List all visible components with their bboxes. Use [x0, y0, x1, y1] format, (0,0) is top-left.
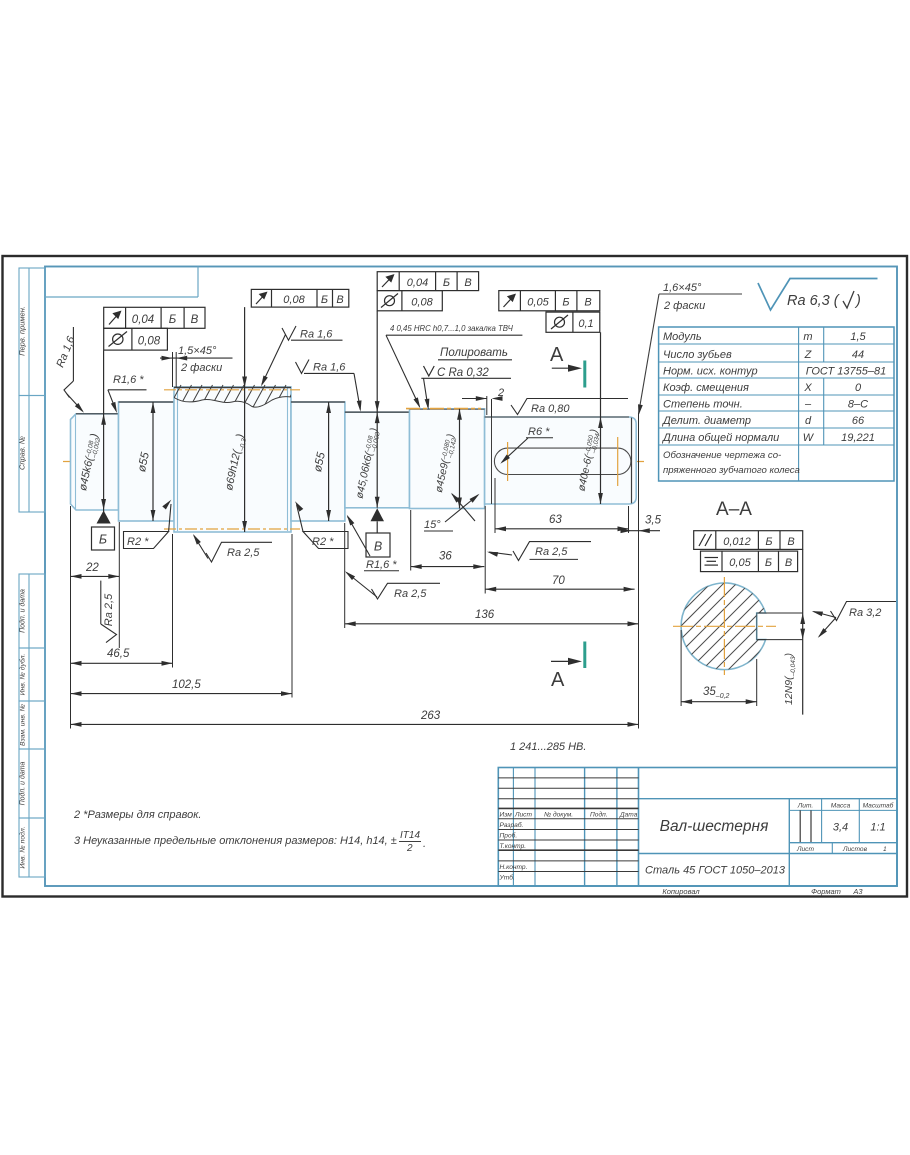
datum symbol V (right) [366, 508, 390, 557]
label R2* (left) [124, 498, 174, 548]
svg-text:W: W [803, 432, 815, 444]
svg-text:Ra 2,5: Ra 2,5 [227, 547, 260, 559]
svg-text:1,6×45°: 1,6×45° [663, 282, 702, 294]
top-left applicability box [45, 267, 198, 298]
svg-text:Ra 0,80: Ra 0,80 [531, 403, 570, 415]
svg-text:Утб.: Утб. [499, 873, 515, 881]
TITLE BLOCK [498, 768, 897, 887]
dim o45.06k6 with leader from tolerance frame C [354, 311, 383, 508]
svg-text:0,012: 0,012 [723, 536, 751, 548]
svg-text:.: . [423, 838, 426, 850]
svg-text:Б: Б [443, 277, 450, 289]
svg-text:Т.контр.: Т.контр. [500, 843, 527, 850]
svg-text:0,08: 0,08 [411, 297, 433, 309]
svg-text:102,5: 102,5 [172, 679, 201, 691]
dim 263 [71, 710, 639, 727]
hardening note 0,45 HRC zakalka TVCh [386, 324, 522, 409]
svg-text:1,5: 1,5 [850, 331, 866, 343]
svg-text:Проб.: Проб. [500, 831, 518, 839]
svg-text:Норм. исх. контур: Норм. исх. контур [663, 366, 758, 378]
svg-text:R2 *: R2 * [127, 536, 149, 548]
svg-text:Б: Б [765, 536, 772, 548]
svg-text:A: A [551, 669, 565, 691]
svg-text:70: 70 [552, 575, 565, 587]
left table rows (black) [498, 777, 638, 779]
GEAR PARAMETER TABLE [659, 327, 894, 481]
svg-text:0,08: 0,08 [138, 336, 161, 348]
svg-text:0,08: 0,08 [283, 294, 305, 306]
tolerance frame E row1 (parallelism 0,012 B V) [694, 531, 803, 550]
svg-text:46,5: 46,5 [107, 648, 130, 660]
tolerance frame E row2 (symmetry 0,05 B V) [701, 551, 798, 572]
left table verticals [512, 768, 514, 887]
roughness Ra 2,5 rotated (on 22 ext line) [101, 581, 117, 643]
svg-text:): ) [854, 293, 861, 309]
svg-text:0,1: 0,1 [578, 318, 593, 330]
left margin box: Inv. No podl. [19, 818, 46, 877]
svg-text:m: m [803, 331, 812, 343]
svg-text:1,5×45°: 1,5×45° [178, 345, 217, 357]
gear segment (o69h12) [174, 387, 291, 532]
roughness Ra 2,5 (left-bottom, shoulder 4/5) [343, 569, 440, 600]
section circle with keyway cut [681, 583, 766, 670]
chamfer note 1,6x45 2 faski (right) [636, 282, 742, 416]
svg-text:Б: Б [99, 533, 107, 547]
NOTES bottom left [73, 809, 426, 854]
svg-text:Ra 6,3 (: Ra 6,3 ( [787, 293, 841, 309]
svg-text:Масса: Масса [831, 803, 851, 810]
shaft segment 6 (o45e9) [410, 409, 485, 509]
dim 102,5 [71, 679, 293, 696]
svg-text:Масштаб: Масштаб [863, 802, 894, 810]
dim 12N9 [783, 613, 805, 705]
svg-text:Разраб.: Разраб. [500, 821, 524, 829]
svg-text:Подп. и дата: Подп. и дата [19, 761, 27, 805]
left margin box: Podp. i data (lower) [19, 749, 46, 818]
tolerance frame D row1 (runout 0,05 B V) [499, 291, 600, 311]
dim 46,5 [71, 648, 173, 666]
shaft segment 2 (o55 left) [119, 402, 175, 521]
bottom strip labels [662, 887, 863, 896]
lit massa masshtab [821, 799, 823, 843]
shaft segment 5 (o45.06k6) [345, 412, 410, 508]
svg-text:Перв. примен.: Перв. примен. [18, 306, 27, 356]
svg-text:Б: Б [321, 294, 328, 306]
svg-text:Длина общей нормали: Длина общей нормали [661, 432, 779, 444]
datum symbol B (left) [92, 511, 115, 551]
svg-text:15°: 15° [424, 519, 441, 531]
svg-text:2 фаски: 2 фаски [663, 300, 705, 312]
dim 70 [485, 575, 634, 592]
fillet shoulders (dark top edges of steps) [485, 416, 629, 418]
svg-text:В: В [584, 297, 591, 309]
svg-text:Сталь 45 ГОСТ 1050–2013: Сталь 45 ГОСТ 1050–2013 [645, 865, 786, 877]
svg-text:Обозначение чертежа со-: Обозначение чертежа со- [663, 450, 781, 461]
dim o55 left [136, 402, 155, 521]
svg-text:Вал-шестерня: Вал-шестерня [660, 818, 769, 835]
label R6* with leader [499, 426, 553, 466]
svg-text:A–A: A–A [716, 499, 752, 520]
svg-text:В: В [787, 536, 794, 548]
svg-text:36: 36 [439, 551, 452, 563]
svg-text:В: В [336, 294, 343, 306]
15 deg taper note with crossing leaders [424, 491, 481, 531]
svg-text:Ra 1,6: Ra 1,6 [300, 329, 333, 341]
svg-text:0,04: 0,04 [132, 314, 154, 326]
svg-text:66: 66 [852, 415, 865, 427]
svg-text:12N9(–0,043): 12N9(–0,043) [783, 653, 797, 705]
svg-text:0: 0 [855, 382, 862, 394]
roughness Ra 2,5 (gear bottom) [191, 533, 272, 562]
shaft segment 4 (o55 right) [291, 402, 345, 521]
svg-text:3,5: 3,5 [645, 515, 662, 527]
svg-text:Число зубьев: Число зубьев [663, 349, 732, 361]
svg-text:3 Неуказанные предельные откло: 3 Неуказанные предельные отклонения разм… [74, 835, 397, 847]
keyway centerline ticks (orange) [508, 437, 618, 486]
svg-text:Дата: Дата [619, 811, 638, 818]
svg-text:136: 136 [475, 609, 495, 621]
svg-text:В: В [464, 277, 471, 289]
svg-text:8–C: 8–C [848, 399, 868, 411]
roughness Ra 2,5 (mid, keyway shaft) [486, 542, 591, 561]
svg-text:Подп. и дата: Подп. и дата [19, 589, 27, 633]
svg-text:44: 44 [852, 349, 864, 361]
dim o45e9 [433, 409, 462, 509]
svg-text:А3: А3 [852, 887, 863, 896]
keyway slot extension lines to 12N9 dim [758, 549, 803, 714]
svg-text:d: d [805, 415, 812, 427]
svg-text:IT14: IT14 [400, 830, 420, 841]
svg-text:Ra 1,6: Ra 1,6 [313, 362, 346, 374]
dim 35 [681, 630, 757, 706]
left margin box: Vzam. inv. No [19, 701, 45, 749]
section title A-A [716, 499, 752, 520]
svg-text:В: В [191, 314, 199, 326]
section arrow A (top) [550, 344, 585, 388]
svg-text:Ra 2,5: Ra 2,5 [394, 588, 427, 600]
dim o55 right [312, 402, 331, 521]
svg-text:0,04: 0,04 [407, 277, 428, 289]
roughness Ra 1,6 no.3 (seg5) [296, 360, 363, 412]
svg-text:В: В [374, 540, 382, 554]
svg-text:Модуль: Модуль [663, 331, 702, 343]
svg-text:Лит.: Лит. [797, 803, 814, 810]
svg-text:X: X [803, 382, 812, 394]
svg-text:1: 1 [883, 846, 887, 853]
roughness Ra 1,6 left (rotated) [54, 327, 85, 414]
tolerance frame C row1 (runout 0,04 B V) [377, 272, 478, 291]
tolerance frame D row2 (cylindricity 0,1) [546, 312, 600, 332]
svg-text:63: 63 [549, 514, 562, 526]
svg-text:Копировал: Копировал [662, 887, 700, 896]
general roughness mark Ra 6,3 [758, 279, 878, 311]
svg-text:R2 *: R2 * [312, 536, 334, 548]
svg-text:Инв. № подл.: Инв. № подл. [19, 826, 27, 868]
svg-text:3,4: 3,4 [833, 822, 848, 834]
tolerance frame A row1 (radial runout 0,04 B V) [104, 307, 205, 328]
svg-text:пряженного зубчатого колеса: пряженного зубчатого колеса [663, 465, 800, 476]
svg-text:Лист: Лист [796, 846, 814, 853]
polirovat note with flag C Ra 0,32 [421, 347, 512, 410]
tolerance frame C row2 (cylindricity 0,08) [377, 291, 442, 311]
extension lines [71, 413, 639, 729]
svg-text:0,05: 0,05 [729, 557, 751, 569]
svg-text:Ra 3,2: Ra 3,2 [849, 607, 881, 619]
svg-text:Инв. № дубл.: Инв. № дубл. [19, 653, 27, 695]
svg-text:Б: Б [765, 557, 772, 569]
dim 136 [345, 609, 639, 626]
svg-text:A: A [550, 344, 564, 366]
shaft segment 1 (o45k6) [71, 414, 119, 510]
roughness Ra 3,2 at section [811, 602, 896, 640]
svg-text:19,221: 19,221 [841, 432, 875, 444]
svg-text:2 *Размеры для справок.: 2 *Размеры для справок. [73, 809, 201, 821]
dim 22 [71, 562, 120, 579]
hardness note 241..285 HB [510, 741, 586, 753]
left margin box: Inv. No dubl. [19, 648, 46, 701]
label R1,6* (left) [108, 374, 147, 414]
svg-text:Полировать: Полировать [440, 347, 508, 359]
svg-text:В: В [785, 557, 792, 569]
gear tooth section band with hatch [168, 385, 307, 409]
svg-text:1:1: 1:1 [870, 822, 885, 834]
svg-text:2 фаски: 2 фаски [180, 362, 222, 374]
outer black scan border [3, 256, 908, 897]
svg-text:R1,6 *: R1,6 * [366, 559, 397, 571]
svg-text:R1,6 *: R1,6 * [113, 374, 144, 386]
svg-text:4 0,45 HRC h0,7...1,0 закалка: 4 0,45 HRC h0,7...1,0 закалка ТВЧ [390, 324, 514, 333]
svg-text:С Ra 0,32: С Ra 0,32 [437, 367, 489, 379]
shaft segment 7 (o40e6) with end chamfer [485, 417, 637, 504]
svg-text:2: 2 [497, 387, 504, 399]
svg-text:Z: Z [804, 349, 813, 361]
tolerance frame A row2 (cylindricity 0,08) [104, 328, 168, 350]
dim o45k6 with datum B leader line [77, 351, 106, 524]
svg-text:Формат: Формат [811, 887, 841, 896]
svg-text:2: 2 [406, 843, 413, 854]
groove dim 2 and roughness Ra 0,80 [462, 387, 628, 417]
left margin box: Perv. primen. [18, 268, 46, 396]
svg-text:Н.контр.: Н.контр. [500, 864, 528, 871]
svg-text:22: 22 [85, 562, 99, 574]
svg-text:№ докум.: № докум. [544, 810, 573, 818]
left margin box: Sprav. No [18, 396, 46, 513]
svg-text:Взам. инв. №: Взам. инв. № [20, 704, 27, 746]
svg-text:35–0,2: 35–0,2 [703, 686, 730, 700]
section arrow A (bottom) [551, 642, 585, 692]
svg-text:0,05: 0,05 [527, 297, 549, 309]
gear pitch dash-dot lines (orange) [164, 390, 300, 529]
dim 63 [495, 514, 629, 531]
svg-text:ГОСТ 13755–81: ГОСТ 13755–81 [806, 366, 886, 378]
svg-text:Подп.: Подп. [590, 810, 608, 818]
svg-text:Б: Б [562, 297, 569, 309]
section hatch [676, 578, 772, 674]
dim o40e6 with leader from tolerance frame D [576, 332, 603, 504]
section crosshair (orange) [673, 577, 776, 675]
tolerance frame B (runout 0,08 B V) above gear [251, 289, 348, 307]
svg-text:Ra 2,5: Ra 2,5 [535, 546, 568, 558]
svg-text:Степень точн.: Степень точн. [663, 399, 743, 411]
label R1,6* (right) [345, 514, 399, 571]
svg-text:Коэф. смещения: Коэф. смещения [663, 382, 749, 394]
svg-text:Б: Б [169, 314, 177, 326]
svg-text:Изм: Изм [500, 811, 513, 818]
svg-text:Листов: Листов [842, 846, 868, 853]
svg-text:–: – [804, 399, 812, 411]
svg-text:Лист: Лист [514, 811, 532, 818]
main centerline [63, 461, 644, 463]
svg-text:Ra 1,6: Ra 1,6 [54, 334, 78, 369]
svg-text:1 241...285 НВ.: 1 241...285 НВ. [510, 741, 586, 753]
dim o69h12 [223, 307, 249, 532]
svg-text:Ra 2,5: Ra 2,5 [103, 593, 115, 626]
dim 36 [411, 551, 485, 570]
left margin box: Podp. i data (upper) [19, 574, 46, 648]
svg-text:Делит. диаметр: Делит. диаметр [661, 415, 751, 427]
svg-text:Справ. №: Справ. № [18, 436, 27, 470]
roughness Ra 1,6 no.2 (over gear) [259, 326, 343, 388]
hardened zone dash-dot over segment 6 [406, 408, 481, 410]
chamfer dim 1,5x45 2 faski [160, 345, 233, 387]
label R2* (right) [293, 500, 348, 549]
keyway slot on segment 7 [494, 448, 631, 474]
svg-text:263: 263 [420, 710, 441, 722]
name box [639, 798, 898, 800]
main blue drawing frame [45, 267, 897, 887]
dim 3,5 [621, 515, 662, 534]
svg-text:R6 *: R6 * [528, 426, 550, 438]
